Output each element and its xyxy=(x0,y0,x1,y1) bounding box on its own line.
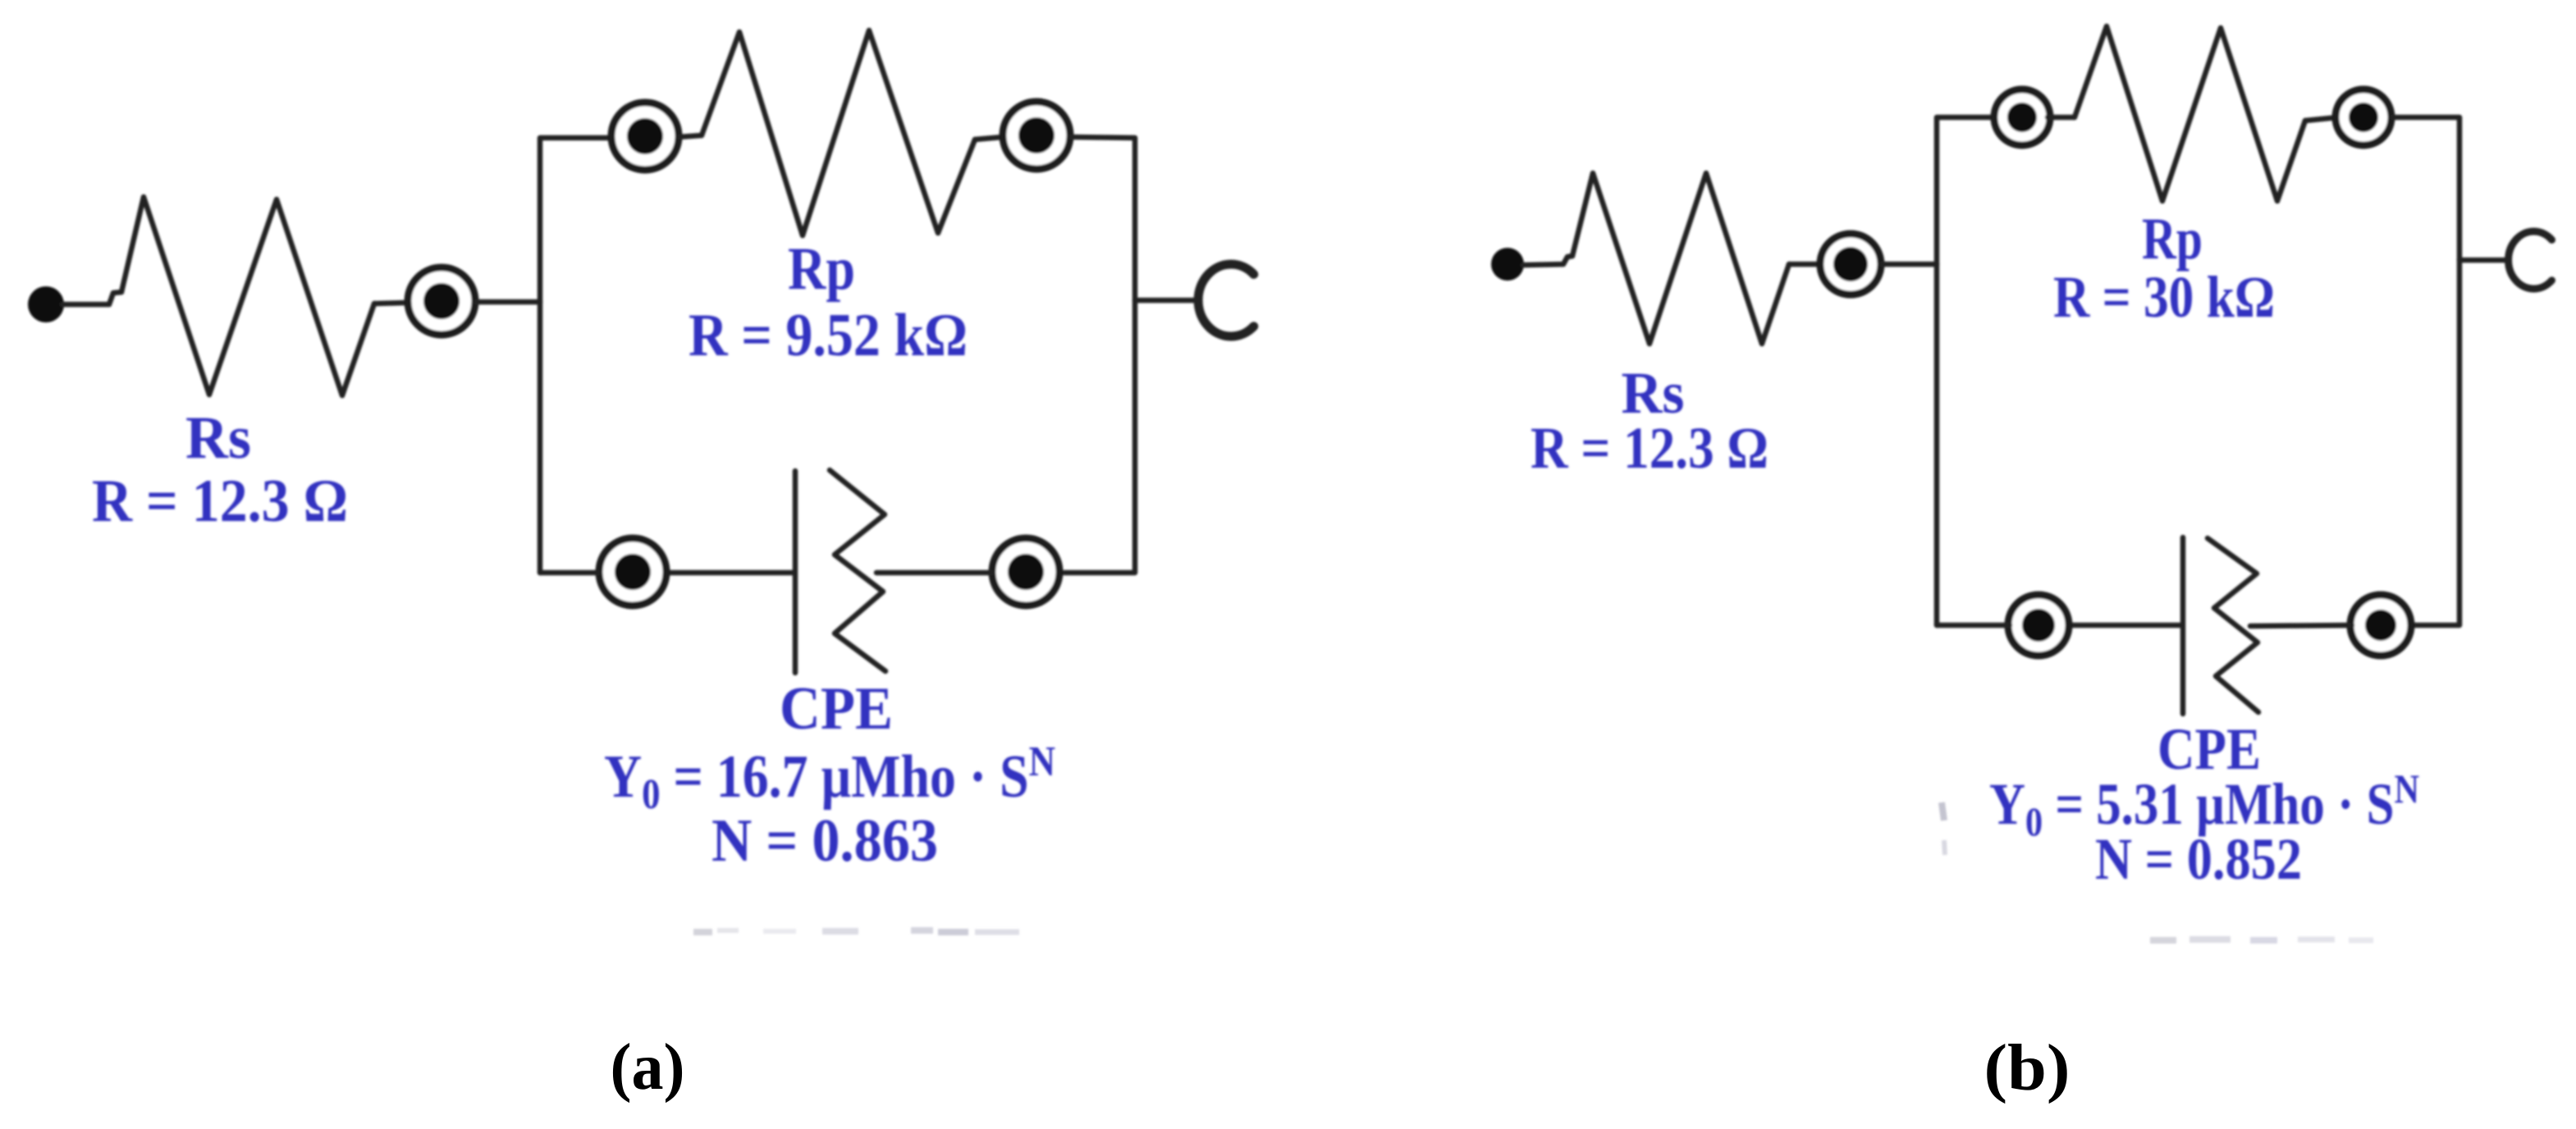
svg-text:R = 12.3 Ω: R = 12.3 Ω xyxy=(1531,415,1768,481)
node terminal circle 1 (b) xyxy=(1820,234,1881,295)
node terminal circle 1 (a) xyxy=(408,267,475,335)
wire input stub (b) xyxy=(1523,256,1572,265)
svg-text:Rp: Rp xyxy=(788,235,855,303)
wire Rs to node (b) xyxy=(1789,262,1819,267)
resistor Rp (a) R=9.52k xyxy=(702,30,975,235)
box right wire (b) xyxy=(2392,117,2459,625)
wire CPE to node (b) xyxy=(2250,625,2352,626)
wire input stub (a) xyxy=(62,292,121,304)
box bottom-left wire segment (a) xyxy=(540,570,599,576)
wire node to CPE plate (a) xyxy=(666,570,792,576)
wire CPE to node (a) xyxy=(876,570,992,576)
wire node to box (a) xyxy=(475,299,540,305)
node terminal circle bottom-right (b) xyxy=(2350,595,2411,656)
node terminal circle bottom-left (b) xyxy=(2008,595,2069,656)
resistor Rs (a) xyxy=(121,197,374,395)
svg-text:R = 12.3 Ω: R = 12.3 Ω xyxy=(92,468,348,535)
box left wire (a) xyxy=(540,138,610,573)
box right wire (a) xyxy=(1064,137,1135,573)
svg-text:R = 30 kΩ: R = 30 kΩ xyxy=(2053,264,2275,330)
terminal dot (b input node) xyxy=(1491,248,1524,281)
zigzag of CPE (b) xyxy=(2208,538,2258,712)
node terminal circle top-left (a) xyxy=(611,103,679,170)
wire node to CPE plate (b) xyxy=(2067,623,2180,628)
node terminal circle top-left (b) xyxy=(1994,89,2050,145)
svg-text:(b): (b) xyxy=(1984,1032,2070,1104)
resistor Rp (b) R=30k xyxy=(2075,26,2305,201)
ghost artifact marks (b) xyxy=(1942,802,2373,940)
node terminal circle top-right (a) xyxy=(1003,102,1070,169)
zigzag of CPE (a) xyxy=(830,470,885,671)
wire node to box (b) xyxy=(1881,262,1937,267)
terminal dot (a input node) xyxy=(28,286,64,322)
output stub wire (a) xyxy=(1135,298,1196,304)
wire Rp to node (b) xyxy=(2305,117,2338,121)
ghost artifact dashes (a) xyxy=(693,930,1019,932)
svg-text:R = 9.52 kΩ: R = 9.52 kΩ xyxy=(689,302,968,369)
capacitor plate of CPE (a) xyxy=(793,471,798,673)
svg-text:N = 0.863: N = 0.863 xyxy=(711,807,938,875)
svg-text:N = 0.852: N = 0.852 xyxy=(2095,826,2302,892)
svg-text:Y0 = 16.7 µMho · SN: Y0 = 16.7 µMho · SN xyxy=(604,738,1055,818)
box bottom-left wire segment (b) xyxy=(1937,623,2010,628)
svg-text:(a): (a) xyxy=(611,1031,685,1104)
svg-text:Rs: Rs xyxy=(185,405,251,472)
capacitor plate of CPE (b) xyxy=(2180,537,2186,714)
svg-text:CPE: CPE xyxy=(780,675,893,743)
output stub wire (b) xyxy=(2459,258,2507,263)
wire to Rp (a) xyxy=(679,135,702,137)
node terminal circle bottom-left (a) xyxy=(599,538,666,606)
open terminal C (b) xyxy=(2509,231,2552,289)
wire Rs to node (a) xyxy=(374,303,405,304)
node terminal circle bottom-right (a) xyxy=(992,538,1059,606)
wire to Rp (b) xyxy=(2048,115,2075,121)
box left wire (b) xyxy=(1937,117,1993,625)
open terminal C (a) xyxy=(1198,264,1254,336)
wire Rp to node (a) xyxy=(975,137,1003,139)
resistor Rs (b) xyxy=(1572,173,1789,344)
svg-text:Rp: Rp xyxy=(2142,206,2203,272)
node terminal circle top-right (b) xyxy=(2336,89,2391,145)
